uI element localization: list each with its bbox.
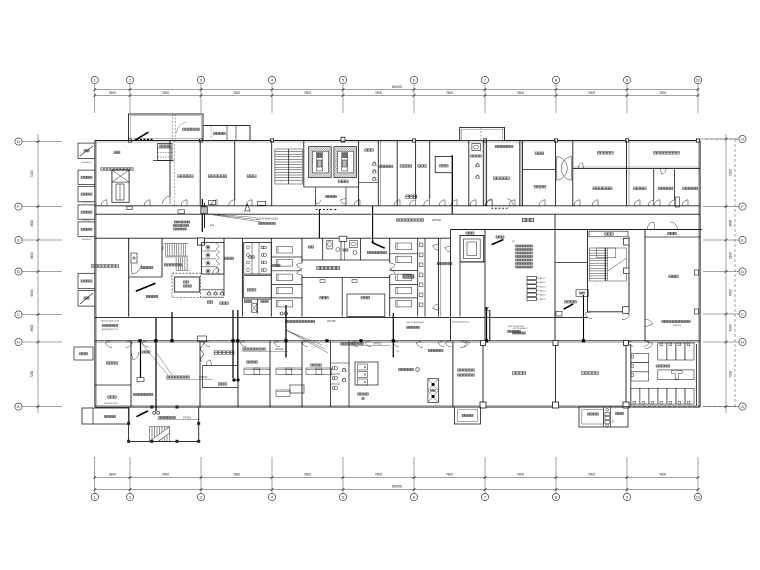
- lower corridor top wall: [95, 316, 588, 318]
- svg-text:AL2-4: AL2-4: [540, 290, 546, 293]
- small room label corridor left: [142, 351, 150, 353]
- distribution board top-left: [158, 144, 173, 161]
- stair hall bottom wall: [588, 311, 630, 313]
- label distribution room: [496, 236, 504, 238]
- svg-text:07FD02: 07FD02: [373, 342, 382, 345]
- wall x483: [482, 341, 484, 407]
- label washroom: [471, 155, 482, 157]
- label anesthesia room: [378, 165, 393, 167]
- two small rooms bottom: [244, 298, 272, 300]
- bath pod strip: [417, 238, 419, 316]
- inner suite room: [435, 157, 452, 173]
- exterior wall top: [95, 140, 700, 142]
- svg-text:G: G: [17, 139, 20, 144]
- underlined label elevator control: [159, 416, 176, 418]
- grid axis 8 bottom circle: [552, 493, 559, 500]
- svg-text:G5YJV-3x50x25: G5YJV-3x50x25: [508, 326, 525, 328]
- wc block 1: [202, 243, 224, 275]
- svg-text:60000: 60000: [392, 85, 402, 89]
- svg-text:7800: 7800: [162, 473, 170, 477]
- svg-text:7800: 7800: [304, 473, 312, 477]
- label operating room: [339, 180, 349, 183]
- main riser x286: [285, 305, 287, 356]
- wall x397.2: [396, 141, 398, 206]
- svg-text:7800: 7800: [375, 473, 383, 477]
- svg-text:7800: 7800: [588, 91, 596, 95]
- svg-text:A: A: [741, 404, 744, 409]
- svg-text:H: H: [741, 340, 744, 345]
- svg-text:AL2-1: AL2-1: [540, 277, 546, 280]
- label soiled utility room: [494, 177, 510, 180]
- annotation texts distribution room: [516, 245, 533, 247]
- label supply shaft annex: [462, 414, 473, 416]
- upper-right horizontal wall y168.4: [573, 167, 700, 169]
- grid axis F right circle: [739, 203, 746, 210]
- wall x270 bottom: [269, 341, 271, 407]
- wc block 2: [244, 243, 272, 275]
- wall x555.6: [555, 141, 557, 206]
- grid axis 1 top circle: [91, 76, 98, 83]
- svg-text:3600: 3600: [30, 252, 34, 259]
- svg-text:600x600-05: 600x600-05: [82, 162, 92, 164]
- svg-text:7800: 7800: [233, 91, 241, 95]
- wall x358.6: [358, 141, 360, 206]
- svg-text:AL1: AL1: [210, 224, 215, 227]
- wall x452.9: [452, 341, 454, 407]
- label exhaust outlet: [214, 132, 226, 134]
- fan symbols in shaft boxes: [80, 146, 93, 156]
- riser x372.6: [372, 206, 374, 243]
- label ecg room: [634, 187, 647, 190]
- top-middle annex vestibule: [460, 127, 505, 140]
- label exhaust outlet annex: [105, 415, 116, 417]
- dotted conduit upper corridor: [316, 209, 334, 211]
- svg-text:AL2-5: AL2-5: [540, 294, 546, 297]
- water room left wall: [644, 230, 646, 341]
- grid axis 4 top circle: [268, 76, 275, 83]
- service elevator: [460, 236, 484, 262]
- label toilet 1: [225, 257, 234, 259]
- label changing room: [418, 165, 427, 167]
- dashed line in genset room: [174, 141, 176, 206]
- svg-text:60000: 60000: [392, 485, 402, 489]
- grid axis 2 bottom circle: [126, 493, 133, 500]
- bottom segment dim line: [95, 477, 698, 479]
- grid axis 6 bottom circle: [410, 493, 417, 500]
- wall grid7 mid: [484, 230, 486, 341]
- label scrub room: [365, 149, 374, 151]
- wall x572.8: [572, 141, 574, 206]
- wall x242.4: [241, 238, 243, 316]
- label exam room 1: [141, 266, 153, 268]
- top-left annex roof machine room: [129, 114, 204, 141]
- svg-text:600x600-05: 600x600-05: [82, 202, 92, 204]
- wall y387.6: [203, 387, 239, 389]
- svg-text:7200: 7200: [729, 169, 733, 176]
- label ward a: [272, 264, 280, 266]
- riser drop to freight elevator: [155, 318, 157, 411]
- label boiler room: [247, 175, 256, 178]
- grid axis 5 bottom circle: [339, 493, 346, 500]
- label sample room: [658, 187, 673, 189]
- grid axis C left circle: [15, 311, 22, 318]
- shaft wall x378-380: [377, 141, 379, 206]
- sterilizer hatched: [428, 379, 439, 403]
- grid axis F left circle: [15, 203, 22, 210]
- shaft box mid-left: [131, 253, 137, 263]
- svg-text:7200: 7200: [30, 370, 34, 377]
- svg-text:(2)YJV-3x50x25: (2)YJV-3x50x25: [513, 328, 529, 330]
- svg-text:3600: 3600: [30, 324, 34, 331]
- main stair east: [589, 248, 626, 281]
- grid axis A left circle: [15, 403, 22, 410]
- svg-text:7800: 7800: [375, 91, 383, 95]
- fire stair mid-left: [163, 244, 190, 271]
- label water tank: [669, 275, 678, 278]
- wash basins row: [207, 292, 210, 295]
- wall x234.7: [234, 141, 236, 201]
- wall x555.5: [555, 341, 557, 407]
- wall x468.8: [468, 141, 470, 206]
- svg-text:D: D: [17, 269, 20, 274]
- label exam room 2: [146, 295, 158, 297]
- wc fixtures top band: [472, 144, 481, 151]
- grid axis A right circle: [739, 403, 746, 410]
- grid axis 3 top circle: [197, 76, 204, 83]
- label fire elevator room: [164, 264, 181, 266]
- wall x429.7: [429, 141, 431, 200]
- wind shaft box: [576, 290, 589, 297]
- svg-text:200*100: 200*100: [673, 325, 682, 327]
- battery room right wall: [696, 344, 698, 406]
- label ward bottom 1: [247, 361, 258, 363]
- top overall dim line: [95, 89, 698, 91]
- shaft wall x519.8: [519, 141, 521, 206]
- grid axis E left circle: [15, 236, 22, 243]
- vestibule below OR suite: [315, 187, 317, 206]
- svg-text:200*100: 200*100: [432, 219, 442, 222]
- svg-text:7800: 7800: [659, 91, 667, 95]
- battery room left wall: [630, 344, 632, 406]
- double door x555-572: [557, 157, 572, 181]
- label disinfection room: [247, 289, 256, 291]
- bed sideways bottom: [290, 385, 304, 393]
- svg-text:AL2-3: AL2-3: [540, 285, 546, 288]
- wall x330.5: [330, 341, 332, 407]
- label oil tank room: [178, 175, 193, 178]
- label air supply fan room: [512, 372, 525, 375]
- mop sink corridor: [178, 210, 185, 214]
- left side protrusion boxes: [78, 143, 95, 158]
- bottom-left stair annex: [129, 407, 199, 442]
- wall x438.4 double: [437, 238, 439, 316]
- svg-text:07FD02: 07FD02: [183, 417, 192, 419]
- svg-text:3900: 3900: [109, 473, 117, 477]
- svg-text:BV24-3(25)CC 4C: BV24-3(25)CC 4C: [102, 329, 119, 331]
- svg-text:G5YJV-3x50+2x25: G5YJV-3x50+2x25: [101, 321, 120, 323]
- svg-text:6000: 6000: [30, 289, 34, 296]
- svg-text:7800: 7800: [588, 473, 596, 477]
- basin room: [359, 182, 379, 184]
- wall y385 left: [95, 384, 131, 386]
- center washrooms: [302, 259, 390, 261]
- wall y365.5: [203, 365, 238, 367]
- label isolation dept: [522, 218, 534, 221]
- label changing room 2: [535, 152, 544, 154]
- svg-text:3900: 3900: [109, 91, 117, 95]
- wall x349: [348, 341, 350, 407]
- wall y262.5 east: [555, 262, 588, 264]
- grid axis H right circle: [739, 338, 746, 345]
- junction box corridor: [198, 336, 207, 342]
- svg-text:600x600-05: 600x600-05: [82, 220, 92, 222]
- label specimen room: [597, 152, 613, 155]
- svg-text:7200: 7200: [729, 370, 733, 377]
- label fire passage: [565, 301, 577, 303]
- label washing: [207, 301, 213, 303]
- grid axis 9 bottom circle: [623, 493, 630, 500]
- battery charger bench: [658, 370, 694, 380]
- label storage room: [108, 396, 117, 398]
- wall y277: [129, 276, 162, 278]
- dotted conduit corridor east: [492, 207, 508, 209]
- water room header: [645, 230, 700, 238]
- svg-text:BV4x10SC32-WC: BV4x10SC32-WC: [104, 403, 119, 405]
- grid axis 10 bottom circle: [694, 493, 701, 500]
- wall x674.4: [673, 168, 675, 200]
- svg-text:A: A: [17, 404, 20, 409]
- svg-text:H: H: [17, 340, 20, 345]
- tray label center: [285, 320, 314, 322]
- svg-text:600x600-05: 600x600-05: [82, 239, 92, 241]
- wall x238 bottom: [237, 341, 239, 407]
- genset room wall x170: [169, 141, 171, 197]
- grid axis D right circle: [739, 268, 746, 275]
- label outdoor AC units area: [91, 265, 118, 268]
- riser x319.4: [318, 209, 320, 238]
- svg-text:3600: 3600: [30, 219, 34, 226]
- svg-text:(2)YJV-3x50+2x25: (2)YJV-3x50+2x25: [256, 217, 278, 221]
- elevator mid-left: [172, 273, 201, 297]
- wall x555 mid: [554, 214, 556, 341]
- wall x202.5 stub: [202, 366, 204, 389]
- underlined label freight elevator: [167, 376, 190, 378]
- middle band top wall west: [95, 237, 451, 239]
- middle band top wall east: [451, 229, 703, 231]
- label air inlet: [114, 151, 120, 154]
- grid axis E right circle: [739, 236, 746, 243]
- label ward bottom 2: [311, 364, 322, 366]
- label triage station bold: [214, 351, 234, 354]
- exterior wall bottom: [95, 406, 700, 408]
- wall x271.3 mid: [270, 238, 272, 316]
- grid axis H left circle: [15, 338, 22, 345]
- shaft wall grid7: [482, 141, 484, 206]
- label 120kW diesel generator room: [101, 168, 133, 171]
- svg-text:7800: 7800: [233, 473, 241, 477]
- doors top band corridor: [101, 200, 107, 206]
- grid axis G right circle: [739, 135, 746, 142]
- label shoe change room: [106, 362, 118, 364]
- label surgical nursing unit: [317, 266, 340, 269]
- riser x172: [171, 312, 173, 341]
- grid axis 8 top circle: [552, 76, 559, 83]
- svg-text:7800: 7800: [659, 473, 667, 477]
- stair top band: [275, 149, 303, 184]
- grid axis 7 top circle: [481, 76, 488, 83]
- svg-text:3900: 3900: [729, 324, 733, 331]
- svg-text:4500: 4500: [729, 289, 733, 296]
- grid axis 1 bottom circle: [91, 493, 98, 500]
- wall y262: [460, 261, 485, 263]
- svg-text:D: D: [741, 269, 744, 274]
- svg-text:E: E: [741, 238, 744, 243]
- junction dots on corridor bottom wall: [140, 342, 142, 378]
- label equipment room: [654, 152, 680, 155]
- label ward room: [400, 165, 412, 167]
- svg-text:10: 10: [696, 78, 701, 83]
- operating suite wall bottom y187: [304, 186, 359, 188]
- svg-text:BV24-3(25)SC 4C: BV24-3(25)SC 4C: [452, 321, 470, 323]
- label nurse room: [440, 165, 449, 167]
- wall x450.5 vertical corridor: [450, 238, 452, 341]
- bottom overall dim line: [95, 489, 698, 491]
- vent annex right: [579, 407, 628, 427]
- grid axis C right circle: [739, 310, 746, 317]
- label mech exhaust room: [208, 175, 227, 178]
- grid axis 5 top circle: [339, 76, 346, 83]
- grid axis G left circle: [15, 138, 22, 145]
- stair bottom annex: [150, 427, 170, 442]
- boundary dashed lines: [734, 139, 736, 407]
- grid axis 6 top circle: [410, 76, 417, 83]
- svg-text:3600: 3600: [729, 219, 733, 226]
- riser x583.5: [583, 295, 585, 341]
- hall wall x302: [301, 238, 303, 263]
- svg-text:200*100: 200*100: [327, 321, 336, 323]
- wall x200 bottom: [199, 341, 201, 407]
- svg-text:2100: 2100: [729, 252, 733, 259]
- outdoor unit area wall x128.7: [128, 238, 130, 316]
- doors bottom band top wall: [142, 342, 148, 347]
- wall x200: [199, 141, 201, 206]
- wall x162: [161, 238, 163, 277]
- label top small room: [495, 145, 513, 147]
- label duty room: [220, 302, 229, 304]
- small box corridor: [127, 206, 132, 209]
- box AL east: [556, 312, 562, 317]
- right grid axis: [725, 134, 727, 413]
- label vent shaft right: [588, 413, 599, 415]
- label surgery room bottom: [218, 383, 227, 385]
- svg-text:7800: 7800: [304, 91, 312, 95]
- top segment dim line: [95, 95, 698, 97]
- svg-text:10: 10: [696, 495, 701, 500]
- svg-text:07FD02: 07FD02: [275, 348, 284, 351]
- ward rooms right col beds: [396, 243, 412, 250]
- grid axis 10 top circle: [694, 76, 701, 83]
- wall x131 bottom: [130, 341, 132, 407]
- column washroom wall: [339, 236, 347, 241]
- svg-text:7200: 7200: [30, 170, 34, 177]
- underlined label corridor 1: [243, 348, 266, 350]
- grid axis 2 top circle: [126, 76, 133, 83]
- svg-text:7800: 7800: [517, 91, 525, 95]
- label dust filter room: [582, 372, 599, 375]
- label passage no.2 surgery: [399, 368, 414, 370]
- label toilet 2: [249, 256, 255, 258]
- wall x626.5 grid9: [626, 141, 628, 206]
- AL1 riser box upper corridor: [201, 199, 203, 232]
- wall x460: [459, 262, 461, 317]
- vent shaft annex mid: [455, 407, 481, 424]
- label peacetime supply fan room: [458, 369, 475, 371]
- exterior wall right: [699, 141, 701, 408]
- box on riser x140: [137, 378, 144, 382]
- wavy break symbol corridor: [201, 341, 204, 362]
- svg-text:7800: 7800: [162, 91, 170, 95]
- bold diagonal top-left with dots: [135, 132, 149, 140]
- svg-text:AL2-6: AL2-6: [540, 298, 546, 301]
- wall x389.7: [389, 238, 391, 263]
- corridor tray label mid: [396, 219, 423, 221]
- svg-text:C: C: [17, 312, 20, 317]
- left grid axis: [37, 134, 39, 413]
- triangle distribution symbol corridor: [245, 204, 250, 211]
- wall x302 bottom: [301, 341, 303, 407]
- label elevator: [466, 232, 474, 234]
- grid axis 7 bottom circle: [481, 493, 488, 500]
- column tabs stair hall: [624, 238, 630, 245]
- operating room 1 hatched: [309, 147, 332, 178]
- svg-text:7800: 7800: [446, 473, 454, 477]
- upper corridor top wall: [95, 205, 700, 207]
- label treatment room: [361, 297, 370, 299]
- riser x452.2 top band: [451, 155, 453, 214]
- stair hall header box: [589, 231, 628, 237]
- door pair corridor bottom x112: [105, 342, 112, 347]
- ward rooms left col beds: [277, 247, 293, 254]
- svg-text:E: E: [17, 238, 20, 243]
- disinfect room: [244, 275, 272, 297]
- stair hall right wall: [628, 237, 630, 312]
- riser leaders fan: [286, 330, 322, 345]
- riser x393.3: [392, 313, 394, 356]
- label inspection room bottom: [428, 349, 443, 351]
- grid axis D left circle: [15, 268, 22, 275]
- bold diagonal soiled room: [372, 243, 384, 249]
- wall x224: [223, 238, 225, 296]
- genset equipment: [112, 170, 129, 202]
- label waiting room: [683, 187, 698, 189]
- center lower rooms: [302, 277, 390, 279]
- riser x486-490 double with x marks: [486, 307, 488, 341]
- riser diagram column: [527, 276, 536, 279]
- operating room 2 hatched: [334, 147, 357, 178]
- upper corridor bottom wall: [95, 213, 700, 215]
- svg-text:G: G: [741, 137, 744, 142]
- label soiled disposal room: [367, 252, 387, 254]
- double door water room top: [647, 222, 654, 230]
- wall x653.7: [653, 168, 655, 200]
- cabinet units bottom: [355, 362, 378, 385]
- small shaft box right: [675, 197, 679, 207]
- door pair corridor bottom x451: [445, 342, 451, 347]
- label roof duct note: [183, 128, 200, 130]
- svg-text:7800: 7800: [446, 91, 454, 95]
- wall y169 right of shaft: [522, 169, 556, 171]
- label manager room: [80, 353, 88, 355]
